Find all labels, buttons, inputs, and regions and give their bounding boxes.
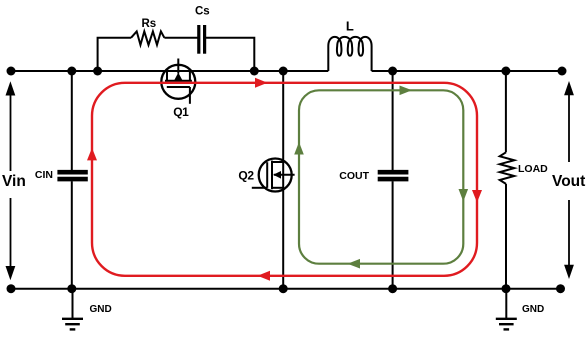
red current loop [92,83,477,276]
red arrow left (bottom side) [258,271,271,281]
junction output node L right [388,67,397,76]
green arrow down (right side) [459,189,469,202]
wire LOAD bottom leg [505,184,507,289]
svg-text:Vout: Vout [552,173,585,190]
capacitor COUT plates [378,172,409,179]
wire LOAD top leg [505,71,507,152]
wire top rail right segment [372,70,562,72]
inductor L [328,37,371,71]
svg-text:CIN: CIN [35,169,53,181]
ground symbol left [62,289,83,330]
wire COUT branch [392,71,394,170]
resistor Rs [131,31,164,45]
Vin measurement arrow [6,81,16,280]
svg-text:Cs: Cs [195,6,210,18]
wire switch node vertical (Q1 source to Q2 drain to ground) [282,71,284,289]
wire Rs to Cs [164,37,197,39]
junction CIN top [67,67,76,76]
capacitor Cs plates [199,25,205,54]
svg-text:LOAD: LOAD [518,163,548,175]
svg-text:Q1: Q1 [173,105,189,119]
junction COUT bottom [388,284,397,293]
green arrow up (left side) [294,142,304,155]
green arrow right (top side) [400,86,413,96]
junction CIN bottom / GND [67,284,76,293]
svg-text:GND: GND [90,304,112,315]
junction Vout+ rail right end [558,67,567,76]
junction Vout- rail right end [556,284,565,293]
red arrow up (left side) [87,148,97,161]
svg-text:Q2: Q2 [238,169,254,183]
junction Vin- rail left end [7,284,16,293]
junction switch node SW [279,67,288,76]
junction snubber right leg [250,67,259,76]
ground symbol right [496,289,517,330]
svg-text:COUT: COUT [339,170,369,182]
green arrow left (bottom side) [348,259,361,269]
red arrow right (top side) [255,78,268,88]
svg-text:GND: GND [522,304,544,315]
junction Vin+ rail left end [7,67,16,76]
svg-text:Rs: Rs [141,18,156,30]
wire snubber right leg [206,38,255,71]
capacitor CIN plates [57,172,87,179]
svg-text:L: L [346,19,354,34]
wire bottom rail [11,288,561,290]
junction LOAD top [501,67,510,76]
wire CIN branch [71,71,73,170]
junction Q2 source bottom [279,284,288,293]
green current loop [299,90,463,263]
red arrow down (right side) [472,190,482,203]
wire top rail left segment [11,70,328,72]
junction snubber left leg [93,67,102,76]
Vout measurement arrow [564,81,574,279]
junction LOAD bottom / GND [502,284,511,293]
svg-text:Vin: Vin [2,173,26,190]
transistor Q1 (high-side PMOS) [161,59,195,104]
wire snubber left leg [98,38,131,71]
transistor Q2 (low-side NMOS) [252,159,295,192]
resistor LOAD [500,152,515,184]
